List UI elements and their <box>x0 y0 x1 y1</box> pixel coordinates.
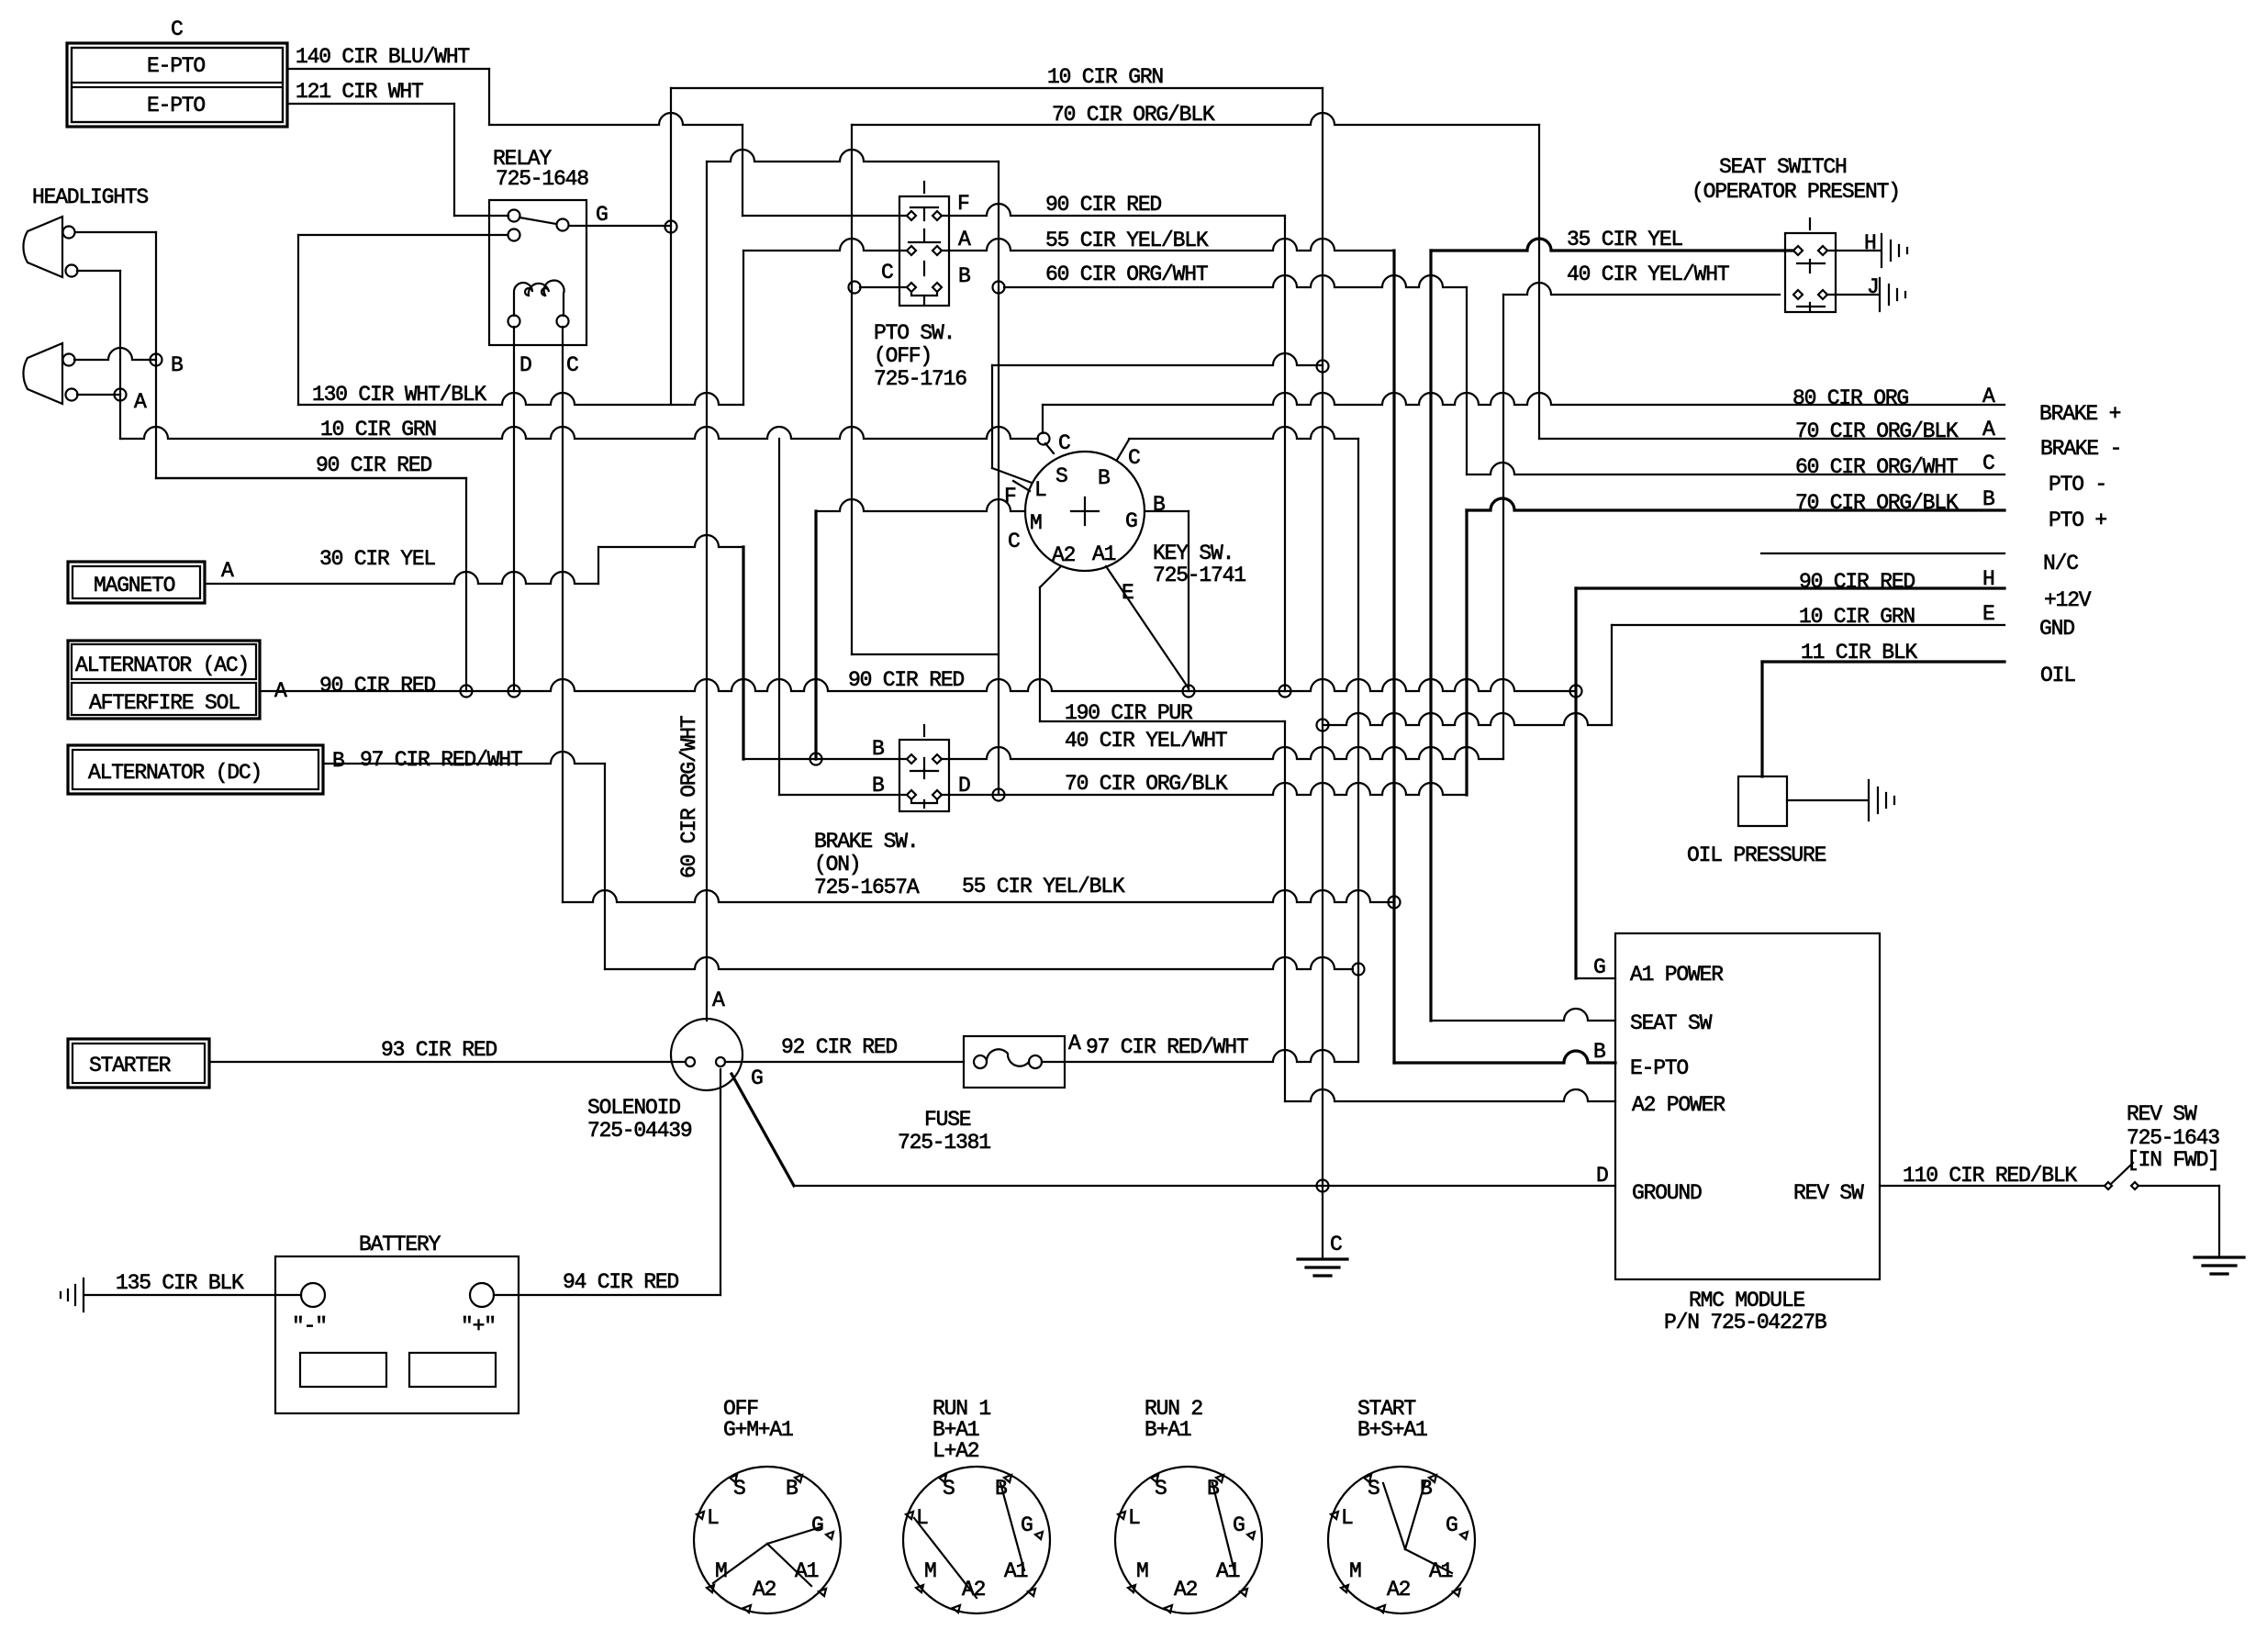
wire key C row (70A feed) <box>1129 427 1358 439</box>
wire 140 CIR BLU/WHT segment b <box>489 113 743 125</box>
wire 135 CIR BLK <box>85 1294 301 1296</box>
headlight2 terminal bottom <box>66 389 78 401</box>
wire 70 net drop at 928 <box>851 125 853 654</box>
svg-text:130 CIR WHT/BLK: 130 CIR WHT/BLK <box>312 383 486 407</box>
wire 40 net riser <box>1502 295 1504 759</box>
svg-text:OIL PRESSURE: OIL PRESSURE <box>1687 843 1826 867</box>
wire solenoid G diagonal <box>731 1074 794 1186</box>
fuse pin left <box>974 1055 987 1068</box>
svg-text:S: S <box>1055 464 1067 488</box>
svg-text:E-PTO: E-PTO <box>147 94 205 117</box>
wire headlight B vertical <box>155 232 157 478</box>
wire SEAT SW in <box>1431 1009 1615 1021</box>
svg-text:C: C <box>881 261 893 285</box>
headlight2 terminal top <box>63 354 75 366</box>
svg-text:B: B <box>872 737 884 761</box>
wire 35 CIR YEL <box>1431 239 1792 251</box>
wire 121 CIR WHT into relay coil common <box>454 215 508 217</box>
svg-text:BRAKE SW.: BRAKE SW. <box>814 830 918 854</box>
wire 70 CIR ORG/BLK row <box>943 783 1467 795</box>
key F stub <box>1013 481 1030 491</box>
svg-text:ALTERNATOR (DC): ALTERNATOR (DC) <box>88 761 262 785</box>
node B <box>151 354 162 366</box>
wire headlight1 top to vertical <box>75 231 156 233</box>
svg-text:M: M <box>1349 1559 1361 1583</box>
wire 40 CIR YEL/WHT row <box>943 747 1503 759</box>
svg-text:[IN FWD]: [IN FWD] <box>2127 1148 2219 1172</box>
svg-text:A: A <box>134 390 147 414</box>
svg-text:"+": "+" <box>461 1314 496 1338</box>
svg-text:L: L <box>1341 1506 1353 1530</box>
PTO switch box <box>899 196 949 306</box>
svg-text:BATTERY: BATTERY <box>359 1233 441 1256</box>
wire 11 CIR BLK row <box>1762 660 2005 663</box>
wire 94 CIR RED riser <box>720 1069 721 1295</box>
wire 190 CIR PUR row <box>1040 720 1285 722</box>
wire relay G to junction <box>569 225 671 227</box>
PTO switch contact crossbar <box>909 241 940 243</box>
svg-text:40 CIR YEL/WHT: 40 CIR YEL/WHT <box>1065 729 1227 753</box>
svg-text:G: G <box>1233 1513 1245 1537</box>
earth ground symbol C <box>1298 1259 1347 1276</box>
wire 70 CIR ORG/BLK B row <box>1467 498 2005 510</box>
wire A row right 55 CIR YEL/BLK <box>943 239 1394 251</box>
brake switch dashed actuator <box>923 725 925 808</box>
wire 10 CIR GRN top bus <box>671 87 1323 89</box>
wire 97 net drop <box>604 764 606 969</box>
svg-text:L: L <box>707 1506 719 1530</box>
wire 140 CIR BLU/WHT segment a <box>287 68 489 70</box>
svg-text:N/C: N/C <box>2043 552 2078 575</box>
wire 60 CIR ORG/WHT vertical <box>706 162 708 1019</box>
PTO switch pins (diamonds) <box>907 211 916 220</box>
svg-text:M: M <box>924 1559 936 1583</box>
wire 10 GRN to key L <box>991 365 993 468</box>
headlight1 terminal bottom <box>66 265 78 277</box>
fuse 725-1381 box <box>964 1036 1065 1088</box>
svg-text:B: B <box>1098 466 1110 490</box>
wire 130 CIR WHT/BLK bus <box>298 393 743 405</box>
svg-text:E: E <box>1982 602 1994 626</box>
svg-text:92 CIR RED: 92 CIR RED <box>781 1035 897 1059</box>
svg-text:A: A <box>221 559 234 583</box>
svg-text:L: L <box>1128 1506 1140 1530</box>
chassis ground at seat H (sideways) <box>1882 234 1907 267</box>
svg-text:SEAT SW: SEAT SW <box>1630 1011 1713 1035</box>
wire 90 CIR RED from B <box>156 477 466 479</box>
wire headlight2 bottom to node A <box>77 394 120 396</box>
wire 190 net drop to A2 POWER <box>1284 721 1286 1101</box>
wire 90 CIR RED drop <box>465 478 467 691</box>
svg-text:G: G <box>596 203 608 227</box>
relay coil pin C <box>557 316 569 328</box>
wire headlight1 bottom <box>77 270 120 272</box>
relay coil <box>514 281 564 316</box>
fuse element S-curve <box>987 1049 1029 1066</box>
svg-text:725-1657A: 725-1657A <box>814 876 920 899</box>
wire key B/G right stub <box>1145 510 1189 512</box>
junction brake D row / 60 net <box>993 789 1005 801</box>
svg-text:140 CIR BLU/WHT: 140 CIR BLU/WHT <box>296 45 469 69</box>
svg-text:C: C <box>1058 431 1070 455</box>
svg-text:94 CIR RED: 94 CIR RED <box>563 1270 678 1294</box>
wire 60 net jog row <box>707 150 999 162</box>
wire 10 CIR GRN lower bus <box>120 427 1038 439</box>
wire 97 CIR RED/WHT b <box>605 957 1353 969</box>
svg-text:B: B <box>171 353 183 377</box>
wire key M row <box>816 499 1025 511</box>
wire relay D to 90 bus <box>513 327 515 691</box>
svg-text:PTO -: PTO - <box>2049 473 2106 497</box>
chassis ground at seat J (sideways) <box>1880 278 1905 311</box>
svg-text:BRAKE +: BRAKE + <box>2039 402 2121 426</box>
svg-text:A2: A2 <box>1174 1578 1198 1602</box>
starter solenoid body <box>671 1019 743 1090</box>
wire 30 net drop to brake row <box>742 547 744 759</box>
wire rev ground drop <box>2218 1186 2220 1256</box>
headlight lamp 1 body <box>23 217 62 277</box>
seat switch pins (diamonds) <box>1793 246 1803 255</box>
svg-text:G+M+A1: G+M+A1 <box>723 1418 793 1442</box>
seat switch dashed actuator <box>1809 218 1811 310</box>
key position diagram OFF <box>694 1467 841 1613</box>
brake switch box <box>899 740 949 811</box>
wire 30 CIR YEL a <box>205 572 598 584</box>
chassis ground at battery (sideways left) <box>61 1278 84 1312</box>
wire 55 net vertical 1519 <box>1392 251 1395 1063</box>
ALTERNATOR (DC) box <box>68 745 323 794</box>
svg-text:725-1643: 725-1643 <box>2127 1126 2219 1150</box>
MAGNETO box <box>68 562 205 603</box>
svg-text:L+A2: L+A2 <box>932 1439 979 1463</box>
wire 60 net drop to PTO- bend <box>1466 287 1468 474</box>
svg-text:725-04439: 725-04439 <box>587 1119 692 1143</box>
key L stub diag <box>992 468 1032 483</box>
svg-text:725-1741: 725-1741 <box>1153 564 1245 587</box>
wire 60 net into solenoid A <box>706 1019 708 1021</box>
svg-text:PTO SW.: PTO SW. <box>874 321 955 345</box>
svg-text:C: C <box>1982 452 1994 475</box>
relay 725-1648 box <box>489 200 586 345</box>
svg-text:70 CIR ORG/BLK: 70 CIR ORG/BLK <box>1065 772 1228 796</box>
svg-text:B+A1: B+A1 <box>1145 1418 1191 1442</box>
svg-text:70 CIR ORG/BLK: 70 CIR ORG/BLK <box>1052 103 1215 127</box>
svg-text:P/N 725-04227B: P/N 725-04227B <box>1664 1311 1826 1334</box>
svg-text:A2: A2 <box>753 1578 776 1602</box>
wire 140 CIR BLU/WHT drop <box>488 69 490 125</box>
svg-text:A2: A2 <box>962 1578 986 1602</box>
svg-text:RMC MODULE: RMC MODULE <box>1689 1289 1804 1312</box>
wire 93 CIR RED <box>209 1061 685 1063</box>
headlight1 terminal top <box>63 227 75 239</box>
relay coil pin D <box>508 316 520 328</box>
svg-text:90 CIR RED: 90 CIR RED <box>1799 570 1915 594</box>
junction relay G / 10 CIR GRN <box>665 221 677 233</box>
reverse switch REV SW 725-1643 <box>2105 1182 2112 1189</box>
svg-text:(ON): (ON) <box>814 853 860 876</box>
junction 55 bus / 1519 riser <box>1389 897 1401 909</box>
svg-text:C: C <box>171 17 183 41</box>
battery box <box>275 1256 519 1413</box>
brake switch bottom bracket <box>911 799 937 803</box>
earth ground symbol rev switch <box>2194 1257 2244 1274</box>
svg-text:C: C <box>566 353 578 377</box>
key switch KEY SW. 725-1741 <box>1025 452 1145 571</box>
svg-text:55 CIR YEL/BLK: 55 CIR YEL/BLK <box>962 875 1125 899</box>
svg-text:SOLENOID: SOLENOID <box>587 1096 680 1120</box>
wire 110 CIR RED/BLK <box>1880 1185 2105 1187</box>
svg-text:MAGNETO: MAGNETO <box>94 574 175 597</box>
svg-text:40 CIR YEL/WHT: 40 CIR YEL/WHT <box>1567 262 1729 286</box>
wire GROUND row (solenoid to RMC) <box>794 1185 1615 1187</box>
svg-text:A1 POWER: A1 POWER <box>1630 963 1724 987</box>
seat switch contact bars <box>1797 263 1825 307</box>
wire 30 CIR YEL b <box>598 535 743 547</box>
wire seat J to ground <box>1828 294 1878 296</box>
wire 92 CIR RED <box>725 1061 964 1063</box>
junction GROUND row / earth <box>1317 1180 1329 1192</box>
chassis ground at oil pressure (sideways) <box>1869 780 1894 820</box>
wire key M drop (magneto net) <box>814 511 817 759</box>
PTO switch contact T-bar <box>910 207 938 220</box>
wire 97 CIR RED/WHT a <box>323 752 605 764</box>
svg-text:B: B <box>1153 493 1165 517</box>
junction 90 bus / key E diag <box>1183 686 1195 698</box>
svg-text:60 CIR ORG/WHT: 60 CIR ORG/WHT <box>1045 262 1208 286</box>
wire headlight A vertical <box>119 271 121 439</box>
wire A1 POWER in <box>1576 977 1615 979</box>
wire 90 CIR RED main bus <box>260 679 1576 691</box>
junction 10 GRN / key L feed <box>1317 361 1329 373</box>
wire 10 CIR GRN vertical at relay <box>670 88 672 404</box>
svg-text:SEAT SWITCH: SEAT SWITCH <box>1719 155 1847 179</box>
RMC module box <box>1615 933 1880 1279</box>
svg-text:G: G <box>1125 509 1137 533</box>
svg-text:121 CIR WHT: 121 CIR WHT <box>296 80 423 104</box>
svg-text:D: D <box>519 353 531 377</box>
svg-text:C: C <box>1008 530 1020 553</box>
svg-text:F: F <box>1004 485 1016 508</box>
svg-text:G: G <box>1446 1513 1457 1537</box>
svg-text:A2: A2 <box>1052 543 1076 567</box>
svg-text:(OFF): (OFF) <box>874 344 932 368</box>
wire 121 CIR WHT segment a <box>287 103 454 105</box>
wire 121 CIR WHT drop to relay <box>453 104 455 216</box>
svg-text:(OPERATOR PRESENT): (OPERATOR PRESENT) <box>1692 180 1900 204</box>
wire 70 CIR ORG/BLK A row <box>1539 438 2005 440</box>
svg-text:HEADLIGHTS: HEADLIGHTS <box>32 185 148 209</box>
svg-text:G: G <box>1593 955 1605 979</box>
wire 70 net riser to PTO+ <box>1465 510 1468 795</box>
wire 40 CIR YEL/WHT to seat J <box>1503 283 1780 295</box>
svg-text:60 CIR ORG/WHT: 60 CIR ORG/WHT <box>677 716 701 878</box>
svg-text:L: L <box>1034 478 1046 502</box>
PTO switch bottom bracket <box>911 292 937 296</box>
key C top stub <box>1045 443 1054 453</box>
junction 90 bus / +12V riser <box>1570 686 1582 698</box>
wire 90 CIR RED drop to bus <box>1284 216 1286 691</box>
svg-text:725-1648: 725-1648 <box>496 167 588 191</box>
wire 30 CIR YEL step <box>597 547 599 584</box>
svg-text:STARTER: STARTER <box>89 1054 172 1077</box>
relay switch blade <box>519 218 556 224</box>
junction key C top <box>1038 433 1050 445</box>
wire brake bottom row left <box>779 794 906 796</box>
svg-text:C: C <box>1128 446 1140 470</box>
svg-text:90 CIR RED: 90 CIR RED <box>319 674 435 698</box>
wire oil pressure to ground <box>1787 799 1867 801</box>
rev switch blade <box>2112 1163 2133 1183</box>
junction 90 bus / PTO F feed <box>1279 686 1291 698</box>
svg-text:B: B <box>1982 487 1994 511</box>
fuse pin right <box>1029 1055 1042 1068</box>
ALTERNATOR (AC) / AFTERFIRE SOL block <box>68 641 260 719</box>
key E diagonal <box>1106 566 1189 688</box>
wire A row left <box>743 239 906 251</box>
svg-text:A: A <box>712 988 725 1012</box>
svg-text:KEY SW.: KEY SW. <box>1153 541 1234 565</box>
key switch center cross <box>1071 497 1099 525</box>
svg-text:B: B <box>786 1477 798 1501</box>
svg-text:B+S+A1: B+S+A1 <box>1357 1418 1427 1442</box>
svg-text:OIL: OIL <box>2040 664 2075 687</box>
wire 10 CIR GRN GND row <box>1612 624 2005 626</box>
battery positive post <box>470 1283 494 1307</box>
svg-text:A1: A1 <box>1216 1559 1240 1583</box>
wire 10 CIR GRN right drop <box>1322 88 1323 1186</box>
wire key C to 80 row stub <box>1042 405 1044 433</box>
wire 10 GRN riser to E GND <box>1611 625 1613 725</box>
svg-text:10 CIR GRN: 10 CIR GRN <box>1047 65 1163 89</box>
headlight lamp 2 body <box>23 343 62 404</box>
connector block E-PTO (2x) <box>67 43 287 127</box>
wire 90 CIR RED from headlights <box>156 477 466 479</box>
svg-text:"-": "-" <box>292 1314 327 1338</box>
wire 60 net cross link <box>852 653 999 655</box>
svg-text:C: C <box>1330 1233 1342 1256</box>
wire 97 CIR RED/WHT from fuse <box>1042 1050 1358 1062</box>
svg-text:55 CIR YEL/BLK: 55 CIR YEL/BLK <box>1045 229 1209 252</box>
solenoid pin left <box>686 1057 695 1066</box>
wire A2 POWER in <box>1285 1089 1615 1101</box>
junction 90 bus / headlight feed <box>461 686 473 698</box>
svg-text:REV SW: REV SW <box>2127 1102 2197 1126</box>
wire relay C to 55 bus <box>562 327 564 902</box>
svg-text:A2 POWER: A2 POWER <box>1632 1093 1725 1117</box>
oil pressure sender box <box>1738 776 1787 826</box>
svg-text:A1: A1 <box>1092 542 1116 566</box>
brake switch contact bars <box>910 758 938 771</box>
wire F row left <box>743 215 906 217</box>
relay switch output pin G <box>557 219 569 231</box>
wire +12V riser <box>1574 588 1577 978</box>
battery cell plates <box>300 1353 386 1387</box>
wire rev switch to ground <box>2139 1185 2219 1187</box>
key C topright stub <box>1117 440 1129 460</box>
svg-text:ALTERNATOR (AC): ALTERNATOR (AC) <box>75 653 249 677</box>
svg-text:93 CIR RED: 93 CIR RED <box>381 1038 497 1062</box>
svg-text:G: G <box>1021 1513 1033 1537</box>
PTO switch internal dashed actuator <box>923 182 925 305</box>
brake switch pins (diamonds) <box>907 754 916 764</box>
svg-text:M: M <box>1136 1559 1148 1583</box>
svg-text:97 CIR RED/WHT: 97 CIR RED/WHT <box>360 748 522 772</box>
svg-text:GROUND: GROUND <box>1632 1181 1702 1205</box>
wire 90 CIR RED +12V row <box>1576 586 2005 589</box>
wire 60 net vertical 1088 <box>998 162 999 795</box>
wire headlight2 top to node B <box>74 348 156 360</box>
wire N/C row <box>1761 553 2005 554</box>
svg-text:97 CIR RED/WHT: 97 CIR RED/WHT <box>1086 1035 1248 1059</box>
svg-text:A: A <box>958 228 971 251</box>
svg-text:725-1716: 725-1716 <box>874 367 966 391</box>
junction B row right <box>993 282 1005 294</box>
svg-text:E-PTO: E-PTO <box>1630 1056 1688 1080</box>
solenoid pin right <box>716 1057 725 1066</box>
wire B row left <box>860 286 906 288</box>
svg-text:E-PTO: E-PTO <box>147 54 205 78</box>
relay switch NC pin <box>508 229 520 241</box>
wire 35 net drop (SEAT SW) <box>1429 251 1432 1021</box>
svg-text:110 CIR RED/BLK: 110 CIR RED/BLK <box>1903 1164 2077 1188</box>
svg-text:80 CIR ORG: 80 CIR ORG <box>1792 386 1908 410</box>
wire 97 net riser (key C feed) <box>1357 439 1359 1062</box>
svg-text:90 CIR RED: 90 CIR RED <box>1045 193 1161 217</box>
wire 130 net left drop <box>297 235 299 405</box>
wire 60 CIR ORG/WHT row <box>1467 463 2005 474</box>
svg-text:725-1381: 725-1381 <box>898 1131 990 1155</box>
battery negative post <box>301 1283 325 1307</box>
junction 97 net / fuse riser <box>1353 964 1365 976</box>
svg-text:M: M <box>1030 511 1042 535</box>
junction brake row / key M net <box>810 753 822 765</box>
svg-text:G: G <box>811 1513 823 1537</box>
wire key right drop to 90 bus <box>1188 511 1189 691</box>
svg-text:BRAKE -: BRAKE - <box>2040 437 2121 461</box>
svg-text:A1: A1 <box>795 1559 819 1583</box>
svg-text:135 CIR BLK: 135 CIR BLK <box>116 1271 244 1295</box>
key A2 stub <box>1040 567 1060 587</box>
svg-text:G: G <box>751 1066 763 1090</box>
svg-text:35 CIR YEL: 35 CIR YEL <box>1567 228 1682 251</box>
svg-text:GND: GND <box>2039 617 2074 641</box>
key position diagram RUN 2 <box>1115 1467 1262 1613</box>
wire brake top row left <box>743 758 906 760</box>
svg-text:FUSE: FUSE <box>924 1108 971 1132</box>
svg-text:B: B <box>332 749 344 773</box>
wire E-PTO in <box>1394 1051 1615 1063</box>
svg-text:30 CIR YEL: 30 CIR YEL <box>319 547 435 571</box>
wire F row right 90 CIR RED <box>943 204 1285 216</box>
svg-text:90 CIR RED: 90 CIR RED <box>848 668 964 692</box>
svg-text:+12V: +12V <box>2044 588 2092 612</box>
wire 140 net drop to F-row <box>742 125 743 216</box>
svg-text:B: B <box>1593 1040 1605 1064</box>
svg-text:A2: A2 <box>1387 1578 1411 1602</box>
svg-text:F: F <box>957 192 969 216</box>
relay switch common pin <box>508 210 520 222</box>
wire key A2 drop <box>1039 587 1041 721</box>
STARTER box <box>68 1039 209 1088</box>
svg-text:90 CIR RED: 90 CIR RED <box>316 453 431 477</box>
svg-text:REV SW: REV SW <box>1793 1181 1864 1205</box>
svg-text:D: D <box>1596 1164 1608 1188</box>
svg-text:AFTERFIRE SOL: AFTERFIRE SOL <box>89 691 240 715</box>
svg-text:PTO +: PTO + <box>2049 508 2106 532</box>
wire 80 CIR ORG row <box>1043 393 2005 405</box>
seat switch box <box>1785 233 1836 312</box>
wire 70 CIR ORG/BLK top bus <box>852 113 1539 125</box>
